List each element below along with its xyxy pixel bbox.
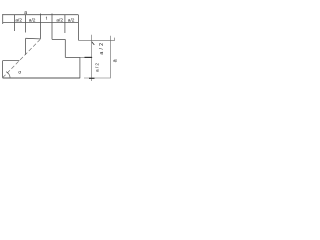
svg-text:a/2: a/2 [68, 17, 75, 23]
extension line x78.4 [77, 15, 79, 40]
angle arc [6, 72, 10, 78]
svg-text:a: a [113, 58, 119, 62]
extension line y40.4 to right [78, 39, 114, 41]
extension end tick [114, 38, 116, 41]
extension line y78 to right [84, 77, 110, 79]
dashed pressure-spread diagonal [3, 39, 40, 77]
bottom edge [3, 77, 80, 79]
dimension line top [3, 14, 80, 79]
svg-text:a/2: a/2 [29, 17, 36, 23]
svg-text:a/2: a/2 [15, 17, 22, 23]
svg-text:a/2: a/2 [95, 62, 101, 72]
extension line x14.4 [13, 15, 15, 31]
left step tread [26, 37, 41, 40]
extension line x64.9 [64, 15, 66, 33]
inner vertical dimension line [91, 35, 93, 81]
extension line x25.6 [25, 15, 27, 33]
wall left edge [39, 14, 41, 39]
svg-text:α: α [18, 70, 21, 75]
dimension tick bar bottom [89, 77, 95, 79]
outer vertical dimension line [109, 36, 111, 78]
dimension tick at inner line top [92, 42, 95, 45]
svg-text:t: t [46, 15, 48, 21]
right riser 2 [79, 57, 81, 78]
extension tick left end [2, 14, 4, 24]
left base top [3, 60, 20, 62]
foundation top surface line [3, 22, 79, 24]
left base edge [2, 61, 4, 78]
svg-text:a/2: a/2 [99, 41, 105, 55]
svg-text:a/2: a/2 [56, 17, 63, 23]
extension line y57.3 to right [80, 56, 93, 58]
wall right edge [51, 14, 53, 40]
left step riser [25, 38, 27, 55]
right riser 1 [64, 39, 66, 57]
right tread 1 [52, 38, 65, 40]
svg-text:a: a [24, 10, 27, 16]
dimension tick bar mid [85, 56, 93, 58]
right tread 2 [65, 56, 80, 58]
